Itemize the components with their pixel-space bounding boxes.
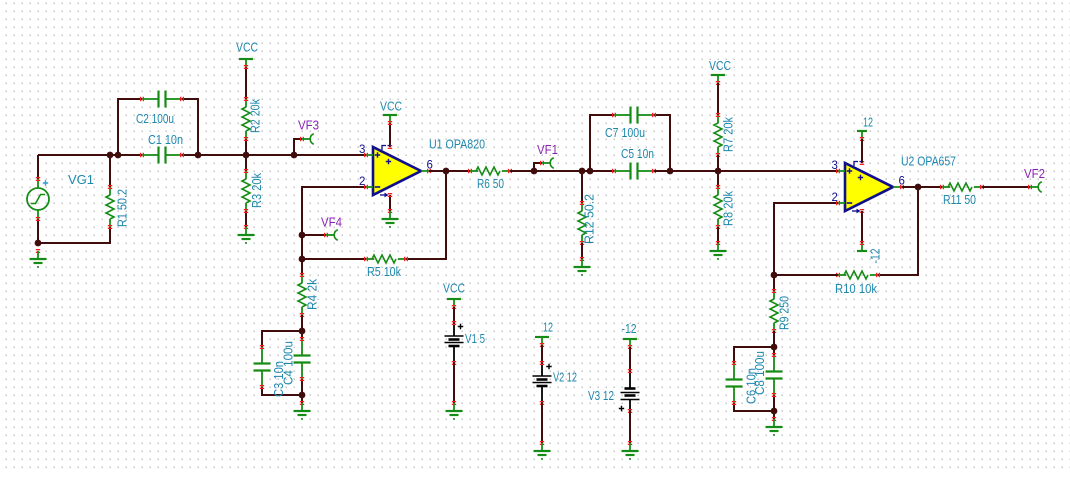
wire VG1 bottom lead <box>37 219 39 243</box>
svg-text:R12 50.2: R12 50.2 <box>583 194 597 244</box>
wire C8 top stub <box>773 347 775 355</box>
VG1 plus sign <box>43 180 48 185</box>
svg-text:V3 12: V3 12 <box>588 389 614 403</box>
wire rail to V3 <box>629 347 631 371</box>
V1 plus sign <box>458 324 463 329</box>
svg-text:VCC: VCC <box>709 59 731 73</box>
svg-text:VF2: VF2 <box>1024 167 1045 181</box>
wire R3 top <box>245 155 247 171</box>
junction node C7 branch <box>587 168 594 175</box>
svg-text:2: 2 <box>832 192 838 204</box>
VCC rail at R2 <box>239 59 253 69</box>
wire C6 branch bottom <box>734 403 774 411</box>
wire VCC to V1 <box>453 307 455 323</box>
junction node VF4 <box>299 232 306 239</box>
wire R2 bottom <box>245 139 247 155</box>
svg-text:3: 3 <box>832 160 838 172</box>
svg-text:6: 6 <box>427 160 433 172</box>
junction node VF1 <box>531 168 538 175</box>
svg-text:C1 10n: C1 10n <box>148 133 183 147</box>
wire VF1 riser <box>534 163 542 171</box>
wire bottom return to R1 <box>38 227 110 243</box>
wire C5 to U2 pin3 <box>654 170 838 172</box>
capacitor C3 <box>254 345 271 389</box>
battery V1 <box>445 321 464 365</box>
junction node U2 output <box>915 184 922 191</box>
svg-text:R10 10k: R10 10k <box>835 282 878 296</box>
capacitor C5 <box>612 163 656 180</box>
resistor R11 <box>940 183 984 191</box>
U2 plus input mark <box>847 168 852 173</box>
svg-text:C4 100u: C4 100u <box>282 341 296 385</box>
wire feedback riser <box>878 187 918 275</box>
wire U2 output <box>902 186 942 188</box>
op-amp U2 OPA657 <box>845 163 893 211</box>
capacitor C1 <box>140 147 184 164</box>
ground at R8 <box>710 241 727 260</box>
svg-text:C8 100u: C8 100u <box>753 351 767 395</box>
wire VCC to R2 <box>245 67 247 99</box>
svg-text:C2 100u: C2 100u <box>136 112 174 126</box>
wire R7 bottom <box>717 155 719 171</box>
-12 rail at V3 <box>623 339 637 349</box>
svg-text:VCC: VCC <box>380 100 402 114</box>
junction node R5 R4 <box>299 256 306 263</box>
U1 bottom supply glyph <box>380 193 389 198</box>
svg-text:R7 20k: R7 20k <box>722 116 736 152</box>
wire C3 branch bottom <box>262 387 302 395</box>
wire V2 to ground <box>541 403 543 443</box>
wire U1 output to R6 <box>429 170 470 172</box>
wire C3 branch top <box>262 331 302 347</box>
junction node C2 branch <box>115 152 122 159</box>
ground at R12 <box>574 257 591 276</box>
ground at C6 C8 <box>766 417 783 436</box>
wire V1 to ground <box>453 363 455 403</box>
junction node VF3 <box>291 152 298 159</box>
ground at R3 <box>238 225 255 244</box>
+12 rail at V2 <box>535 337 549 347</box>
resistor R6 <box>468 167 512 175</box>
capacitor C2 <box>140 91 184 108</box>
wire U1 to ground <box>389 195 391 211</box>
junction node R12 <box>579 168 586 175</box>
ground at V2 <box>534 441 551 460</box>
svg-text:U1 OPA820: U1 OPA820 <box>429 138 485 152</box>
resistor R2 <box>242 97 250 141</box>
U2 minus input mark <box>847 202 852 204</box>
resistor R5 <box>364 255 408 263</box>
V3 plus sign <box>619 406 624 411</box>
wire R6 to C5 <box>510 170 614 172</box>
wire C7 branch left riser <box>590 115 614 171</box>
svg-text:2: 2 <box>359 176 365 188</box>
svg-text:C7 100u: C7 100u <box>605 126 645 140</box>
resistor R10 <box>836 271 880 279</box>
wire C6 branch top <box>734 347 774 363</box>
probe VF3 <box>300 134 314 144</box>
resistor R4 <box>298 273 306 317</box>
wire R9 bottom <box>773 331 775 347</box>
V2 plus sign <box>546 364 551 369</box>
wire VCC to R7 <box>717 83 719 115</box>
svg-text:R1 50.2: R1 50.2 <box>116 189 130 227</box>
svg-text:VCC: VCC <box>443 282 465 296</box>
wire 12 supply to U2 <box>861 139 863 163</box>
resistor R9 <box>770 289 778 333</box>
wire R8 to ground <box>717 227 719 243</box>
wire U1 VCC supply <box>389 123 391 147</box>
wire C2 branch left riser <box>118 99 142 155</box>
capacitor C8 <box>766 353 783 397</box>
junction node C7 rejoin <box>667 168 674 175</box>
junction node R1 top <box>107 152 114 159</box>
wire V3 to ground <box>629 411 631 443</box>
VCC rail at U1 <box>383 115 397 125</box>
svg-text:R11 50: R11 50 <box>943 193 976 207</box>
U1 positive supply mark <box>386 159 391 164</box>
wire R12 to ground <box>581 243 583 259</box>
wire rail to V2 <box>541 345 543 363</box>
junction node R7 R8 <box>715 168 722 175</box>
+12 rail at U2 <box>857 131 867 141</box>
svg-text:VF1: VF1 <box>537 143 558 157</box>
ground at VG1 <box>30 249 47 268</box>
svg-text:3: 3 <box>359 144 365 156</box>
svg-text:-12: -12 <box>869 248 883 263</box>
voltage source VG1 <box>27 177 49 221</box>
svg-text:VG1: VG1 <box>68 173 94 187</box>
junction node C3 C4 top <box>299 328 306 335</box>
svg-text:VCC: VCC <box>236 41 258 55</box>
svg-text:U2 OPA657: U2 OPA657 <box>901 155 956 169</box>
probe VF1 <box>540 158 554 168</box>
wire U2 pin2 branch <box>774 203 838 275</box>
-12 rail at U2 <box>857 241 867 251</box>
junction node U1 output <box>443 168 450 175</box>
U2 bottom supply glyph <box>852 209 861 214</box>
svg-text:R4 2k: R4 2k <box>306 278 320 310</box>
U1 input/output leads <box>364 145 431 197</box>
resistor R7 <box>714 113 722 157</box>
op-amp U1 OPA820 <box>373 147 421 195</box>
wire node to R9 <box>773 275 775 291</box>
resistor R8 <box>714 185 722 229</box>
probe VF2 <box>1028 182 1042 192</box>
wire to ground <box>301 395 303 403</box>
wire C2 branch right riser <box>182 99 198 155</box>
svg-text:6: 6 <box>899 176 905 188</box>
svg-text:12: 12 <box>863 116 873 130</box>
probe VF4 <box>324 230 338 240</box>
U1 top supply glyph <box>382 146 391 151</box>
wire R4 bottom <box>301 315 303 331</box>
wire VG1 top lead <box>37 155 39 179</box>
svg-text:R3 20k: R3 20k <box>250 172 264 208</box>
ground at U1 <box>382 209 399 228</box>
junction node C2 rejoin <box>195 152 202 159</box>
wire R1 top <box>109 155 111 187</box>
wire U2 to -12 rail <box>861 211 863 243</box>
wire C7 branch right riser <box>654 115 670 171</box>
U1 plus input mark <box>375 152 380 157</box>
svg-text:R9 250: R9 250 <box>778 296 792 330</box>
junction node R2 R3 <box>243 152 250 159</box>
wire R12 top <box>581 171 583 203</box>
wire R11 to VF2 <box>982 186 1030 188</box>
junction node U2 feedback <box>771 272 778 279</box>
wire C1 right to U1 pin3 <box>182 154 366 156</box>
ground at C3 C4 <box>294 401 311 420</box>
wire R3 to ground <box>245 211 247 227</box>
svg-text:VF3: VF3 <box>298 119 319 133</box>
ground at V3 <box>622 441 639 460</box>
battery V2 <box>533 361 552 405</box>
svg-text:V2 12: V2 12 <box>553 371 577 385</box>
battery V3 <box>621 369 640 413</box>
wire R5 left <box>302 258 366 260</box>
resistor R3 <box>242 169 250 213</box>
svg-text:R5 10k: R5 10k <box>367 265 402 279</box>
VCC rail at V1 <box>447 299 461 309</box>
svg-text:R2 20k: R2 20k <box>249 98 263 133</box>
svg-text:R8 20k: R8 20k <box>722 190 736 226</box>
wire VF3 riser <box>294 139 302 155</box>
U2 top supply glyph <box>854 162 863 167</box>
svg-text:V1 5: V1 5 <box>465 332 485 346</box>
wire R5 right to output riser <box>406 171 446 259</box>
wire to ground <box>773 411 775 419</box>
wire VF4 stub <box>302 234 326 236</box>
wire C4 bottom stub <box>301 379 303 395</box>
svg-text:C5 10n: C5 10n <box>621 147 654 161</box>
svg-text:12: 12 <box>543 321 553 335</box>
wire U1 pin2 branch <box>302 187 366 275</box>
capacitor C6 <box>726 361 743 405</box>
U2 positive supply mark <box>858 175 863 180</box>
wire R10 to node <box>774 274 838 276</box>
capacitor C4 <box>294 337 311 381</box>
svg-text:VF4: VF4 <box>321 216 342 230</box>
wire VG1 to C1 left <box>38 154 142 156</box>
junction node C3 C4 bottom <box>299 392 306 399</box>
svg-text:-12: -12 <box>622 322 637 336</box>
ground at V1 <box>446 401 463 420</box>
capacitor C7 <box>612 107 656 124</box>
resistor R1 <box>106 185 114 229</box>
junction node C6 C8 bottom <box>771 408 778 415</box>
VCC rail at R7 <box>711 75 725 85</box>
resistor R12 <box>578 201 586 245</box>
U1 minus input mark <box>375 186 380 188</box>
junction node C6 C8 top <box>771 344 778 351</box>
U2 input/output leads <box>836 161 904 213</box>
wire C4 top stub <box>301 331 303 339</box>
wire R8 top <box>717 171 719 187</box>
junction node VG1 return <box>35 240 42 247</box>
wire C8 bottom stub <box>773 395 775 411</box>
svg-text:R6 50: R6 50 <box>477 177 504 191</box>
